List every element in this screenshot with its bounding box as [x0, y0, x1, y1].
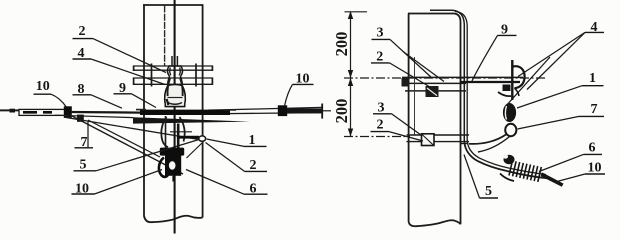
svg-text:7: 7 — [591, 102, 598, 117]
pole P2 bottom break (wavy) — [409, 220, 461, 226]
svg-text:2: 2 — [376, 49, 383, 64]
centre line level 2 (dash-dot) — [344, 136, 410, 138]
label 10 right — [285, 71, 314, 106]
insulator I1 shading — [168, 79, 183, 97]
svg-text:10: 10 — [588, 160, 602, 175]
pole P1 left edge — [144, 5, 151, 222]
jumper wire over pole top — [430, 10, 464, 142]
crossarm bar upper — [133, 66, 213, 70]
label 2 top — [73, 24, 167, 73]
pole P1 top cap — [143, 4, 203, 6]
label 10 left — [34, 79, 67, 107]
centre line level 1 (dash-dot) — [344, 77, 545, 79]
pole P1 centre line / ground lead — [174, 0, 176, 234]
conductor W1 left tail — [0, 109, 19, 111]
jumper J2 — [88, 120, 160, 157]
suspension strap — [165, 116, 167, 148]
svg-text:2: 2 — [79, 24, 86, 39]
strain section left bar — [19, 109, 65, 115]
deadend device D1 top bar — [160, 148, 184, 156]
label 9 — [114, 81, 157, 108]
jumper J1 — [70, 115, 183, 174]
binding knot — [504, 155, 515, 165]
bolt ring on pole edge (label 1) — [199, 136, 206, 141]
label 6 — [186, 170, 268, 197]
pole P1 inner line — [164, 6, 166, 67]
label 7 — [75, 122, 94, 150]
binding hatch — [509, 161, 541, 182]
label 9 right fig — [472, 22, 517, 81]
dimension line vertical — [350, 12, 352, 138]
wire start blob — [10, 109, 16, 113]
svg-text:5: 5 — [485, 184, 492, 199]
label 1 — [207, 133, 267, 148]
svg-text:1: 1 — [589, 71, 596, 86]
bracket end block — [402, 78, 410, 87]
tie rod clamp to pole bolt — [66, 118, 199, 140]
label 2 top right fig — [371, 49, 435, 90]
clamp C2 (label 7) — [77, 115, 84, 122]
svg-text:3: 3 — [377, 26, 384, 41]
wire band at pole — [140, 110, 230, 115]
insulator I2 — [503, 103, 516, 122]
svg-text:200: 200 — [332, 32, 351, 57]
svg-text:6: 6 — [589, 140, 596, 155]
strain section right bar — [287, 108, 322, 113]
insulator I1 body — [172, 56, 177, 66]
label 2 bottom — [371, 117, 424, 141]
label 5 right fig — [464, 155, 498, 199]
tie pole edge to jumper — [461, 143, 468, 145]
link ring to device — [187, 142, 204, 158]
bolt through device — [177, 124, 180, 151]
dimension arrowheads — [348, 11, 353, 19]
wire tip — [541, 172, 564, 186]
deadend device D1 hook — [159, 158, 168, 177]
label 4 — [73, 46, 166, 84]
svg-text:200: 200 — [332, 99, 351, 124]
clamp C1 (label 10 left) — [64, 107, 71, 118]
pole P1 bottom break (wavy) — [151, 216, 203, 223]
jumper lower bend — [465, 143, 508, 172]
pole P1 right edge — [202, 5, 204, 218]
pole inner line right fig — [414, 57, 416, 135]
shackle ring — [505, 124, 516, 136]
label 4 — [518, 20, 604, 90]
clamp box level 2 (label 2 bottom) — [422, 134, 435, 146]
clamp box level 1 (label 2 top) — [426, 86, 439, 97]
label 3 top — [372, 26, 445, 82]
label 5 — [74, 140, 200, 173]
label 2 right — [206, 143, 268, 173]
bracket level 2 — [407, 135, 470, 142]
arm from ring to jumper — [469, 135, 506, 144]
deadend device D1 body — [165, 156, 181, 176]
svg-text:10: 10 — [36, 79, 50, 94]
conductor W1 main span — [71, 111, 160, 114]
bracket nut left of bolt — [503, 85, 511, 92]
stray wire across hook — [505, 57, 550, 107]
svg-text:5: 5 — [80, 157, 87, 172]
crossarm U-bolts — [152, 64, 197, 87]
conductor W2 (far wire, receding) — [55, 115, 133, 117]
label 1 right fig — [517, 71, 604, 108]
crossarm bar lower — [133, 78, 213, 84]
pole P2 left edge + cap + right edge — [408, 14, 410, 223]
label 10 right fig — [557, 160, 605, 181]
suspension link hooks — [161, 117, 168, 147]
svg-text:1: 1 — [249, 133, 256, 148]
tie rod to pole bolt — [170, 131, 192, 133]
label 6 right fig — [539, 140, 602, 171]
jumper under binding — [507, 171, 549, 179]
bracket level 1 — [402, 77, 523, 83]
svg-text:2: 2 — [250, 158, 257, 173]
clamp C3 right (label 10 right) — [278, 105, 287, 116]
label 10 bottom — [72, 170, 163, 197]
extension line top — [345, 11, 368, 13]
label 7 right fig — [518, 102, 605, 129]
svg-text:2: 2 — [377, 117, 384, 132]
label 8 — [73, 82, 123, 108]
bolt and hook level 1 — [511, 60, 513, 100]
label 3 bottom — [373, 100, 421, 135]
